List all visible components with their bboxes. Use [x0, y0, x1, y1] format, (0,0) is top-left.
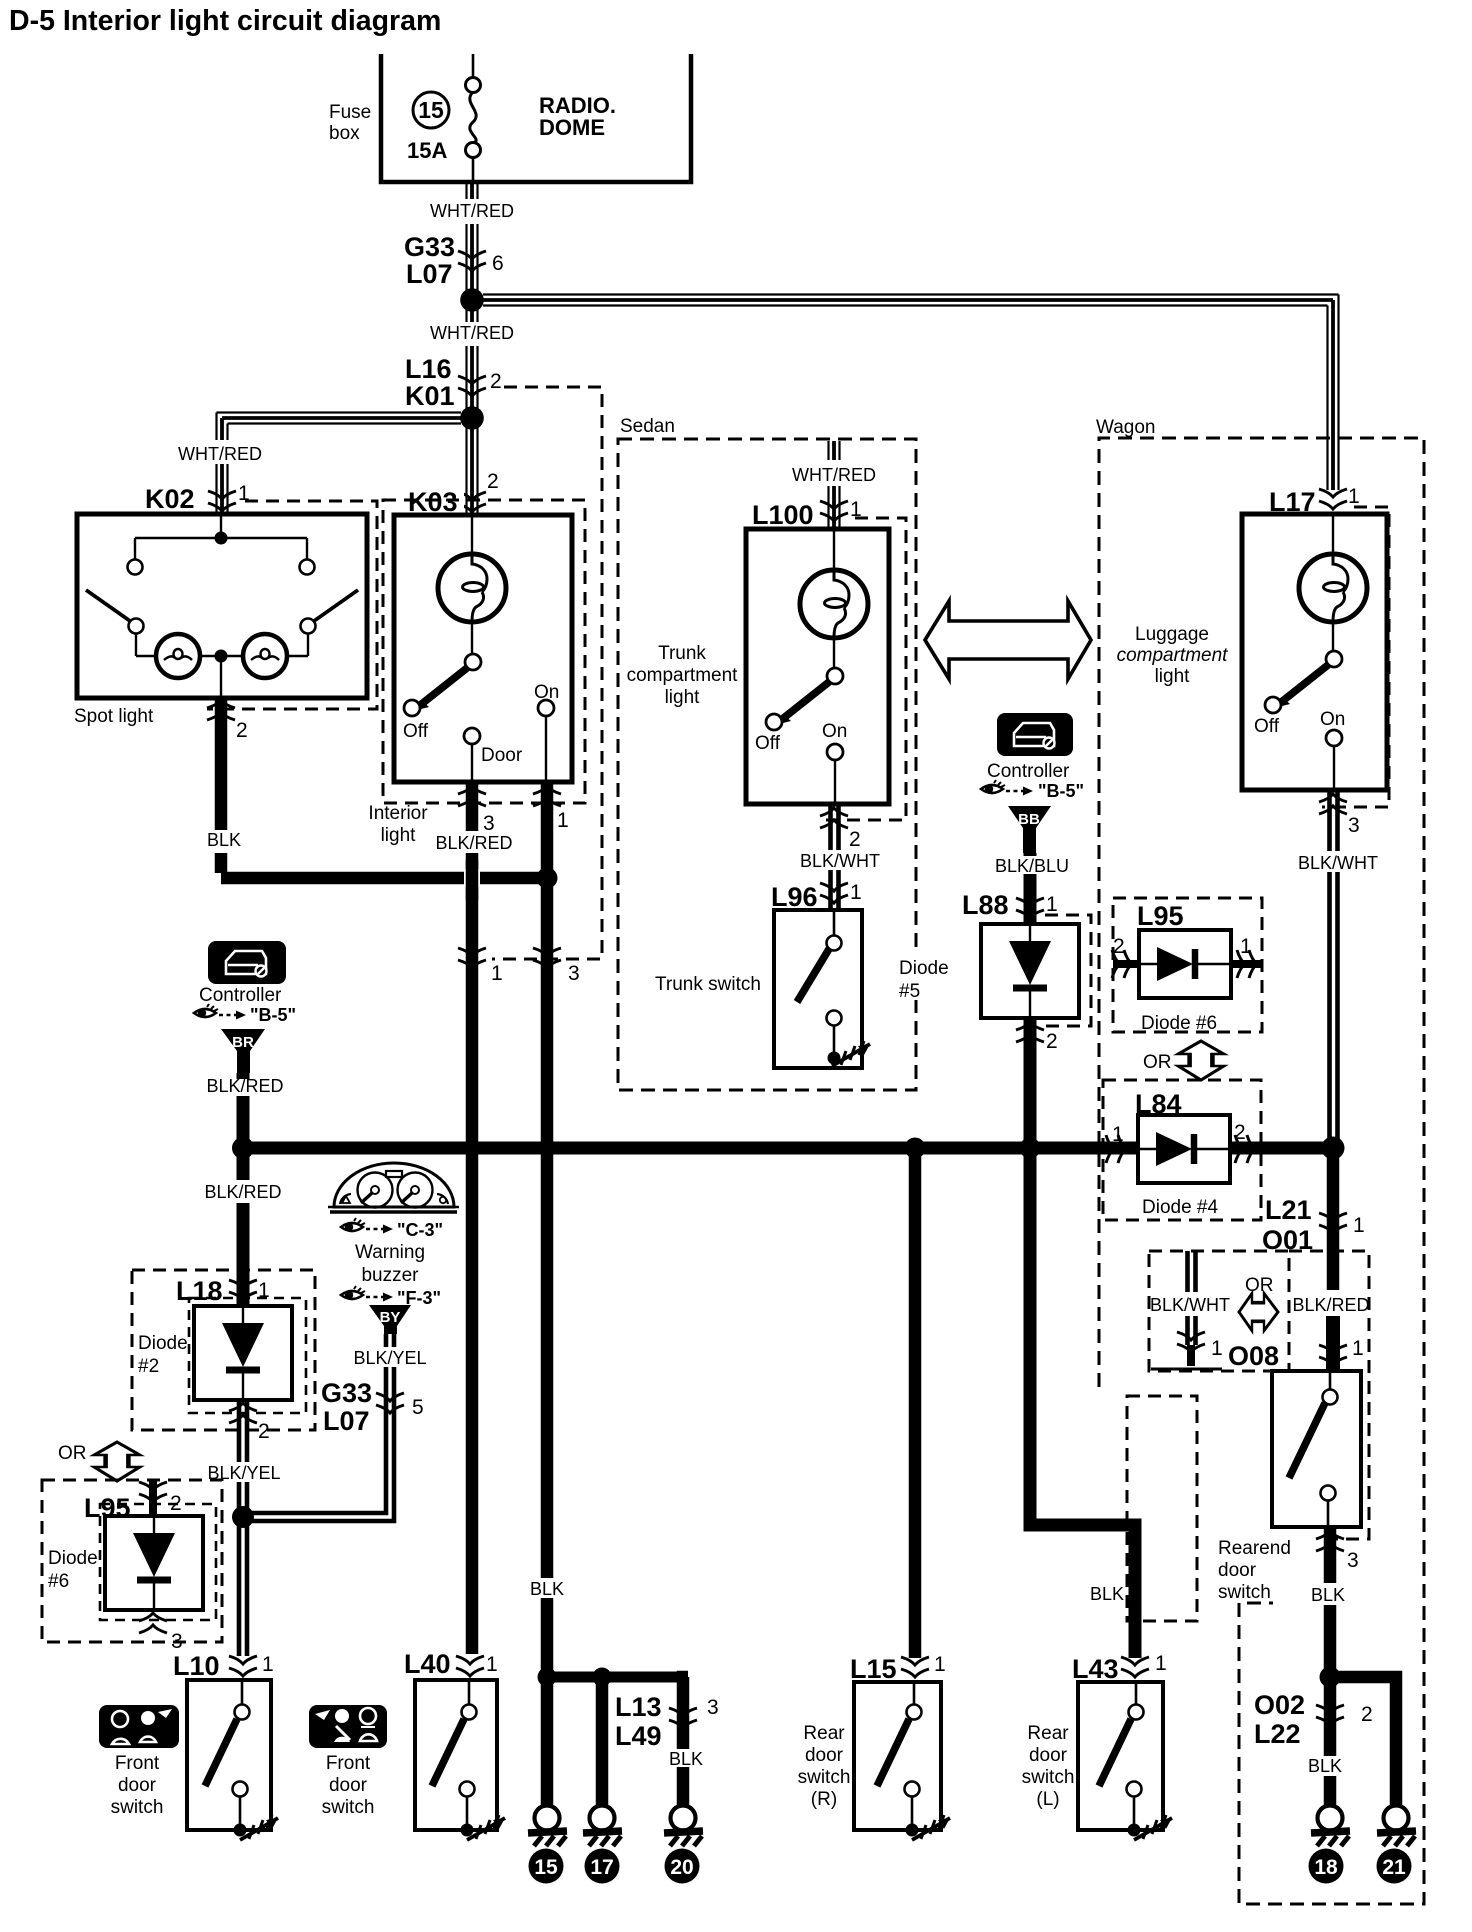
ground terminal 20 [664, 1806, 703, 1847]
wire K02 pin 2 (BLK) [215, 698, 228, 830]
svg-text:L43: L43 [1072, 1654, 1119, 1684]
interior light K03 box [394, 515, 572, 782]
svg-text:buzzer: buzzer [361, 1265, 419, 1286]
fuse box F15 [381, 54, 691, 182]
svg-text:BLK: BLK [530, 1579, 564, 1599]
svg-text:O08: O08 [1228, 1341, 1279, 1371]
junction node O08 ground split [1320, 1667, 1341, 1688]
branch wire to ground 21 [1330, 1677, 1396, 1805]
svg-text:BLK/RED: BLK/RED [206, 1076, 283, 1096]
connector L16/K01 pin 2 [458, 376, 486, 396]
svg-text:Off: Off [1254, 716, 1280, 737]
svg-text:K01: K01 [405, 381, 455, 411]
L84 diode4 dashed box [1103, 1080, 1261, 1220]
K02 internals [86, 514, 358, 698]
svg-text:5: 5 [412, 1396, 424, 1419]
wire BLK/BLU [1024, 853, 1037, 876]
ground terminal 21 [1377, 1806, 1416, 1847]
L15 internals [877, 1682, 950, 1840]
junction node K02/K03 [537, 868, 558, 889]
L43 internals [1099, 1682, 1172, 1840]
junction node K01 [460, 406, 484, 430]
connector L15 pin 1 [901, 1657, 929, 1677]
wire into L100 (WHT/RED) [829, 441, 840, 529]
svg-text:Sedan: Sedan [620, 416, 675, 437]
O08 dashed box [1289, 1251, 1369, 1539]
L10 internals [205, 1680, 278, 1840]
svg-text:switch: switch [1022, 1767, 1075, 1788]
connector G33/L07 pin 6 [458, 251, 486, 271]
svg-text:light: light [1155, 666, 1191, 687]
svg-text:O02: O02 [1254, 1690, 1305, 1720]
front door switch L10 box [187, 1680, 271, 1830]
front door switch icon 2 [309, 1705, 387, 1748]
L100 internals [755, 529, 868, 804]
ground terminal 18 [1311, 1806, 1350, 1847]
svg-text:Controller: Controller [199, 985, 282, 1006]
fuse symbol 15A [466, 54, 481, 182]
svg-text:Door: Door [481, 745, 523, 766]
svg-text:Front: Front [115, 1753, 160, 1774]
front door switch L40 box [415, 1680, 497, 1830]
svg-text:BLK: BLK [1308, 1756, 1342, 1776]
svg-text:3: 3 [1347, 1549, 1359, 1572]
svg-text:BY: BY [380, 1309, 401, 1326]
svg-text:WHT/RED: WHT/RED [430, 323, 514, 343]
alt wire BLK/WHT [1188, 1251, 1196, 1345]
connector L43 pin 1 [1121, 1657, 1149, 1677]
svg-text:1: 1 [486, 1653, 498, 1676]
O08 internals [1289, 1371, 1338, 1527]
svg-text:light: light [665, 687, 701, 708]
junction node gnd17 [593, 1668, 612, 1687]
connector K03 pin 2 [458, 492, 486, 512]
svg-text:switch: switch [111, 1797, 164, 1818]
K02 connector dashed box [207, 501, 377, 709]
L88 pin 2 wire [1024, 1018, 1037, 1148]
svg-text:L100: L100 [752, 500, 814, 530]
svg-text:OR: OR [58, 1443, 87, 1464]
connector L88 pin 1 [1016, 898, 1044, 918]
svg-text:OR: OR [1143, 1052, 1172, 1073]
svg-text:BLK/RED: BLK/RED [1292, 1295, 1369, 1315]
bulb right K02 [243, 634, 287, 678]
svg-text:L07: L07 [323, 1406, 370, 1436]
svg-text:2: 2 [1046, 1030, 1058, 1053]
eye B-5 left [194, 1004, 218, 1017]
svg-text:BLK/RED: BLK/RED [435, 833, 512, 853]
L18 pin 2 exit [229, 1403, 257, 1423]
switch blade K03 [419, 668, 467, 706]
svg-text:Rearend: Rearend [1218, 1538, 1291, 1559]
connector BB triangle [1008, 806, 1051, 853]
wire long feed to L17 (triple line) [483, 295, 1339, 491]
wire O01 down [1327, 1148, 1340, 1290]
svg-text:2: 2 [258, 1420, 270, 1443]
wire down to K03 [467, 418, 478, 515]
svg-text:BLK: BLK [1311, 1585, 1345, 1605]
svg-text:(R): (R) [811, 1789, 837, 1810]
svg-text:Luggage: Luggage [1135, 624, 1209, 645]
svg-text:door: door [1218, 1560, 1257, 1581]
switch blades K02 [86, 590, 130, 621]
svg-text:door: door [118, 1775, 157, 1796]
svg-text:3: 3 [568, 962, 580, 985]
bulb K03 [438, 554, 506, 622]
svg-text:Diode #6: Diode #6 [1141, 1013, 1217, 1034]
wire fuse to G33 junction (WHT/RED triple line) [467, 182, 478, 296]
svg-text:L16: L16 [405, 354, 452, 384]
junction node bus-L15 [905, 1138, 926, 1159]
wire L88 to L43 with jog [1030, 1148, 1135, 1658]
svg-text:1: 1 [1352, 1337, 1364, 1360]
svg-text:D-5 Interior light circuit dia: D-5 Interior light circuit diagram [9, 5, 441, 37]
L18 inner dashed box [189, 1298, 306, 1413]
controller icon (left) [208, 941, 286, 984]
svg-text:1: 1 [850, 498, 862, 521]
svg-text:Warning: Warning [355, 1242, 425, 1263]
K03 connector dashed box [383, 500, 585, 803]
svg-text:WHT/RED: WHT/RED [178, 444, 262, 464]
L17 internals [1254, 514, 1367, 790]
svg-text:BLK/WHT: BLK/WHT [1150, 1295, 1230, 1315]
svg-text:L95: L95 [1137, 901, 1184, 931]
connector K02 pin 1 [208, 491, 236, 511]
svg-text:1: 1 [934, 1653, 946, 1676]
L100 connector dashed box [826, 518, 906, 820]
svg-text:On: On [822, 721, 847, 742]
svg-text:L22: L22 [1254, 1719, 1301, 1749]
svg-text:Rear: Rear [1027, 1723, 1069, 1744]
ground terminal 17 [583, 1806, 622, 1847]
svg-text:Diode: Diode [48, 1548, 98, 1569]
svg-text:1: 1 [1240, 935, 1252, 958]
svg-text:Spot light: Spot light [74, 706, 154, 727]
svg-text:#5: #5 [899, 981, 920, 1002]
svg-text:1: 1 [1046, 893, 1058, 916]
svg-text:"B-5": "B-5" [250, 1005, 296, 1025]
L88 dashed box [1045, 915, 1091, 1026]
svg-text:BLK/BLU: BLK/BLU [995, 856, 1069, 876]
connector L13/L49 pin 3 [669, 1708, 697, 1728]
wire BLK horizontal to node [221, 872, 547, 885]
wire O02 down [1324, 1677, 1337, 1756]
junction node gnd15 [538, 1668, 557, 1687]
diode #5 L88 [981, 924, 1079, 1018]
svg-text:Front: Front [326, 1753, 371, 1774]
main bus wire [242, 1142, 1138, 1155]
junction node bus right [1322, 1137, 1345, 1160]
svg-text:1: 1 [557, 809, 569, 832]
K03 pin 3 wire (BLK/RED) [466, 782, 479, 831]
svg-text:15: 15 [534, 1856, 558, 1879]
connector BY triangle [369, 1305, 411, 1334]
svg-text:1: 1 [262, 1653, 274, 1676]
connector L18 pin 1 [229, 1280, 257, 1300]
svg-text:BB: BB [1018, 811, 1040, 828]
svg-text:Diode #4: Diode #4 [1142, 1197, 1218, 1218]
svg-text:Diode: Diode [138, 1333, 188, 1354]
svg-text:BLK: BLK [669, 1749, 703, 1769]
front door switch icon 1 [99, 1705, 179, 1748]
connector L10 pin 1 [229, 1656, 257, 1676]
trunk compartment light L100 box [746, 529, 889, 804]
svg-text:#6: #6 [48, 1571, 69, 1592]
svg-text:compartment: compartment [1117, 645, 1229, 666]
diode #6 L95 entry stub [149, 1480, 157, 1517]
svg-text:2: 2 [236, 719, 248, 742]
L17 connector dashed box [1322, 507, 1389, 807]
rear door switch R L15 box [854, 1682, 941, 1830]
wire BLK/RED to L18 [237, 1148, 250, 1180]
svg-text:21: 21 [1382, 1856, 1406, 1879]
svg-text:BLK/WHT: BLK/WHT [800, 851, 880, 871]
connector BR triangle [221, 1029, 265, 1073]
alt BLK/WHT dashed box [1149, 1251, 1289, 1371]
svg-text:3: 3 [483, 812, 495, 835]
svg-text:Wagon: Wagon [1096, 417, 1156, 438]
svg-text:BR: BR [232, 1034, 254, 1051]
svg-text:3: 3 [1348, 814, 1360, 837]
white gap for crossing at 472,878 [464, 869, 480, 887]
svg-text:L07: L07 [406, 259, 453, 289]
svg-text:6: 6 [492, 252, 504, 275]
wire to ground 17 [596, 1677, 609, 1805]
svg-text:door: door [805, 1745, 844, 1766]
svg-text:BLK: BLK [1090, 1584, 1124, 1604]
svg-text:BLK/YEL: BLK/YEL [353, 1348, 426, 1368]
L17 pin 3 wire (BLK/WHT double) [1330, 790, 1338, 1148]
svg-text:switch: switch [322, 1797, 375, 1818]
L100 pin 2 wire (BLK/WHT double) [831, 804, 839, 910]
svg-text:1: 1 [1348, 485, 1360, 508]
svg-text:1: 1 [1155, 1652, 1167, 1675]
svg-text:3: 3 [707, 1696, 719, 1719]
svg-text:Off: Off [403, 721, 429, 742]
wire bus to L15 [909, 1148, 922, 1658]
wire BLK/YEL double down to junction [239, 1400, 247, 1656]
svg-text:WHT/RED: WHT/RED [792, 465, 876, 485]
svg-text:G33: G33 [404, 232, 455, 262]
wire to ground 20 [683, 1677, 688, 1805]
svg-text:DOME: DOME [539, 115, 605, 140]
svg-text:L10: L10 [173, 1651, 220, 1681]
connector O02/L22 pin 2 [1316, 1705, 1344, 1725]
svg-text:On: On [1320, 709, 1345, 730]
eye B-5 [981, 780, 1005, 793]
eye F-3 [341, 1286, 365, 1299]
svg-text:Interior: Interior [368, 803, 428, 824]
svg-text:L18: L18 [176, 1276, 223, 1306]
svg-text:15A: 15A [407, 138, 447, 163]
ground bus horizontal [547, 1672, 688, 1683]
K03 outer dashed box [492, 387, 602, 959]
svg-text:light: light [381, 825, 417, 846]
svg-text:door: door [1029, 1745, 1068, 1766]
svg-text:1: 1 [1211, 1337, 1223, 1360]
junction node G33 [460, 288, 484, 312]
svg-text:15: 15 [418, 97, 444, 123]
wire BLK/RED from BR [237, 1073, 250, 1079]
diode #6 L95 [105, 1516, 203, 1610]
svg-text:17: 17 [590, 1856, 613, 1879]
svg-text:box: box [329, 123, 360, 144]
Wagon dashed outline [1099, 438, 1424, 1904]
rear door switch L L43 box [1078, 1682, 1163, 1830]
svg-text:3: 3 [171, 1630, 183, 1653]
controller icon (right) [997, 713, 1073, 756]
svg-text:L49: L49 [615, 1721, 662, 1751]
K03 pin 1 wire [541, 782, 554, 878]
svg-text:2: 2 [1361, 1703, 1373, 1726]
connector L40 pin 1 [456, 1656, 484, 1676]
K03 internals [403, 515, 559, 782]
spot light K02 box [77, 514, 367, 698]
svg-text:2: 2 [490, 370, 502, 393]
eye C-3 [341, 1218, 365, 1231]
svg-text:compartment: compartment [627, 665, 739, 686]
svg-text:K02: K02 [145, 484, 195, 514]
trunk switch L96 box [774, 910, 862, 1068]
label BLK/YEL [352, 1347, 428, 1367]
connector L17 pin 1 [1319, 489, 1347, 509]
Sedan-Wagon double arrow [925, 601, 1091, 679]
circled 15 [413, 92, 449, 128]
junction node BLK/YEL [232, 1506, 254, 1528]
L40 internals [432, 1680, 505, 1840]
svg-text:Diode: Diode [899, 958, 949, 979]
wire link junction to BY (double) [250, 1334, 394, 1521]
svg-text:1: 1 [491, 962, 503, 985]
Wagon notch dashed box [1127, 1396, 1197, 1621]
diode #2 L18 [194, 1306, 292, 1400]
warning buzzer cluster icon [328, 1163, 459, 1212]
svg-text:L40: L40 [404, 1649, 451, 1679]
connector G33/L07 pin 5 [376, 1393, 404, 1413]
svg-text:Controller: Controller [987, 761, 1070, 782]
wire to ground 15 [541, 1677, 554, 1805]
svg-text:G33: G33 [321, 1378, 372, 1408]
L95 diode6 dashed box [1113, 898, 1262, 1032]
svg-text:L21: L21 [1265, 1195, 1312, 1225]
svg-text:1: 1 [1353, 1214, 1365, 1237]
junction node BR-bus [232, 1137, 254, 1159]
luggage compartment light L17 box [1242, 514, 1387, 790]
svg-text:Off: Off [755, 733, 781, 754]
svg-text:BLK/RED: BLK/RED [204, 1182, 281, 1202]
svg-text:"B-5": "B-5" [1038, 781, 1084, 801]
svg-text:#2: #2 [138, 1356, 159, 1377]
connector L96 pin 1 [820, 883, 848, 903]
svg-text:18: 18 [1314, 1856, 1338, 1879]
svg-text:WHT/RED: WHT/RED [430, 201, 514, 221]
svg-text:20: 20 [670, 1856, 693, 1879]
svg-text:Rear: Rear [803, 1723, 845, 1744]
svg-text:Fuse: Fuse [329, 102, 371, 123]
connector L100 pin 1 [820, 501, 848, 521]
svg-text:Trunk: Trunk [658, 643, 706, 664]
L95 #6 dashed box [42, 1480, 222, 1642]
svg-text:door: door [329, 1775, 368, 1796]
wire BLK/RED thick to O08 [1326, 1316, 1340, 1371]
svg-text:L15: L15 [850, 1654, 897, 1684]
L96 internals [797, 910, 870, 1066]
svg-text:L96: L96 [771, 882, 818, 912]
svg-text:L13: L13 [615, 1692, 662, 1722]
svg-text:OR: OR [1245, 1275, 1274, 1296]
junction node bus-L88 [1020, 1138, 1041, 1159]
svg-text:(L): (L) [1036, 1789, 1059, 1810]
BLK label x547 wire [524, 1578, 570, 1598]
ground terminal 15 [528, 1806, 567, 1847]
rearend door switch O08 box [1272, 1371, 1361, 1527]
connector L21/O01 pin 1 [1319, 1213, 1347, 1233]
svg-text:Trunk switch: Trunk switch [655, 974, 761, 995]
svg-text:BLK/WHT: BLK/WHT [1298, 853, 1378, 873]
svg-text:2: 2 [1234, 1121, 1246, 1144]
svg-text:L88: L88 [962, 890, 1009, 920]
svg-text:"C-3": "C-3" [397, 1220, 443, 1240]
L95#6 inner dashed box [100, 1504, 216, 1620]
O08 pin 3 wire BLK [1324, 1527, 1337, 1583]
svg-text:BLK: BLK [207, 830, 241, 850]
bulb left K02 [156, 634, 200, 678]
svg-text:2: 2 [487, 470, 499, 493]
svg-text:2: 2 [1113, 935, 1125, 958]
L18 dashed box [132, 1270, 315, 1430]
Sedan dashed box [618, 439, 916, 1090]
svg-text:1: 1 [850, 881, 862, 904]
L95 pin 3 exit [139, 1613, 167, 1633]
svg-text:switch: switch [1218, 1582, 1271, 1603]
svg-text:switch: switch [798, 1767, 851, 1788]
svg-text:2: 2 [849, 828, 861, 851]
wire branch to K02 (triple line) [217, 413, 462, 513]
wire G33 junction to L16 junction [467, 300, 478, 418]
